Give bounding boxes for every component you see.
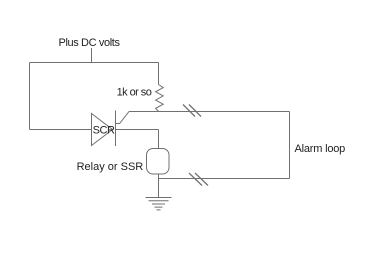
wire: SCR anode feed bbox=[30, 129, 92, 131]
wire: bottom alarm-loop run bbox=[159, 178, 290, 180]
wire: left vertical rail bbox=[29, 63, 31, 130]
wire break marks (double slash, top run) bbox=[183, 105, 201, 117]
relay/SSR coil box bbox=[147, 149, 170, 175]
svg-text:Plus DC volts: Plus DC volts bbox=[59, 37, 121, 49]
svg-text:SCR: SCR bbox=[93, 124, 115, 136]
wire: alarm loop right rail bbox=[289, 112, 291, 179]
wire: down to relay coil bbox=[158, 130, 160, 149]
svg-text:1k or so: 1k or so bbox=[117, 87, 152, 99]
wire: relay bottom to ground bbox=[158, 174, 160, 198]
wire: gate to alarm-loop top run bbox=[129, 111, 290, 113]
wire: top supply rail bbox=[30, 62, 159, 64]
wire: SCR gate lead (angled) bbox=[116, 112, 130, 124]
svg-text:Relay or SSR: Relay or SSR bbox=[77, 161, 144, 173]
svg-text:Alarm loop: Alarm loop bbox=[295, 143, 346, 155]
wire: SCR cathode to relay bbox=[116, 129, 159, 131]
wire break marks (double slash, bottom run) bbox=[189, 173, 208, 186]
resistor R1 top lead bbox=[158, 63, 160, 85]
ground bbox=[146, 198, 172, 210]
resistor R1 (1k or so) zigzag body bbox=[156, 85, 164, 112]
SCR thyristor: cathode bar bbox=[115, 111, 117, 147]
wire: stub from Plus DC volts label down to top rail bbox=[91, 48, 93, 63]
SCR thyristor: triangle (anode to cathode) bbox=[92, 114, 113, 146]
